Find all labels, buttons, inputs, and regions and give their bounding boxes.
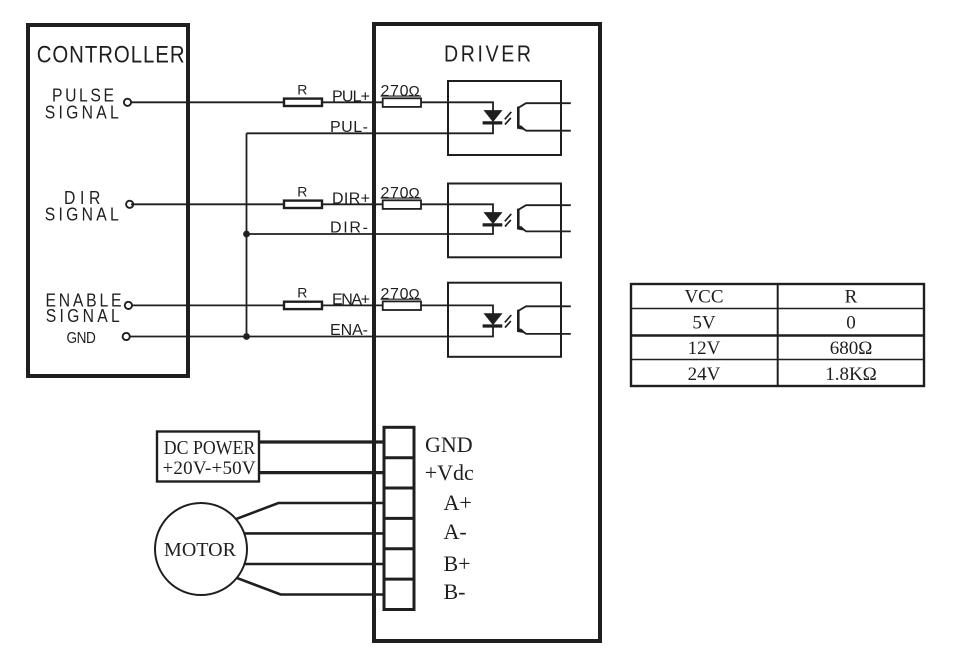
svg-text:VCC: VCC <box>684 287 723 308</box>
wire R6 to optocoupler U3 <box>421 304 448 306</box>
svg-text:R: R <box>297 82 307 98</box>
terminal circle PULSE <box>124 99 131 106</box>
terminal block divider 3 <box>384 517 414 520</box>
optocoupler U3 collector wire <box>518 306 571 311</box>
svg-text:1.8KΩ: 1.8KΩ <box>825 364 877 385</box>
table row line 3 <box>631 359 924 361</box>
wire motor to A+ terminal <box>235 503 386 519</box>
svg-text:DC POWER: DC POWER <box>164 437 256 459</box>
svg-text:GND: GND <box>425 432 473 457</box>
resistor R2 <box>284 201 322 208</box>
wire R4 to optocoupler U1 <box>421 101 448 103</box>
terminal circle GND <box>123 333 130 340</box>
optocoupler U2 LED triangle <box>485 213 502 224</box>
optocoupler U2 box <box>448 184 561 258</box>
value label 270 ohm for R6 <box>381 286 422 303</box>
optocoupler U1 LED cathode bar <box>483 121 503 124</box>
junction dot ENA-/rail <box>243 333 250 340</box>
svg-text:ENA+: ENA+ <box>332 292 370 309</box>
label DIR SIGNAL <box>45 187 119 225</box>
svg-text:0: 0 <box>846 313 856 334</box>
optocoupler U2 phototransistor base bar <box>517 209 520 230</box>
wire DIR+ from terminal to resistor R2 <box>131 203 283 205</box>
wire motor to B- terminal <box>237 578 387 595</box>
label PULSE SIGNAL <box>45 84 119 122</box>
resistor R1 <box>284 99 322 106</box>
wire ENA+ from terminal to resistor R3 <box>131 304 283 306</box>
optocoupler U3 LED triangle <box>485 314 502 325</box>
svg-text:CONTROLLER: CONTROLLER <box>37 41 185 68</box>
svg-text:B-: B- <box>444 579 466 604</box>
svg-text:+20V-+50V: +20V-+50V <box>163 458 256 479</box>
vertical rail wire (common return) <box>246 133 248 336</box>
terminal block divider 4 <box>384 547 414 550</box>
terminal circle ENABLE <box>125 302 132 309</box>
svg-text:5V: 5V <box>692 313 716 334</box>
controller box <box>28 25 188 376</box>
optocoupler U1 emitter wire with arrow <box>518 125 571 131</box>
optocoupler U3 emitter wire with arrow <box>518 328 571 334</box>
driver title label <box>444 41 531 67</box>
resistor R5 (270 ohm) <box>383 200 421 209</box>
wire DC POWER to GND terminal <box>259 440 386 443</box>
optocoupler U1 LED triangle <box>485 111 502 122</box>
optocoupler U1 light coupling arrows <box>505 112 512 125</box>
svg-text:24V: 24V <box>688 364 721 385</box>
optocoupler U1 LED anode wire <box>448 102 493 110</box>
table row line 2 <box>631 334 924 337</box>
svg-text:R: R <box>297 184 307 200</box>
table row line 1 <box>631 308 924 310</box>
wire R3 to resistor R6 <box>322 304 383 306</box>
terminal block divider 1 <box>384 456 414 459</box>
resistor R4 (270 ohm) <box>383 98 421 107</box>
optocoupler U2 emitter wire with arrow <box>518 226 571 232</box>
wire PUL- from optocoupler U1 to left rail <box>247 132 449 134</box>
svg-text:PUL+: PUL+ <box>332 89 370 106</box>
terminal block divider 5 <box>384 578 414 581</box>
label GND (controller) <box>67 330 96 347</box>
optocoupler U2 LED cathode wire <box>448 225 493 234</box>
optocoupler U3 LED cathode bar <box>483 324 503 327</box>
svg-text:DRIVER: DRIVER <box>444 41 531 67</box>
wire DC POWER to +Vdc terminal <box>259 471 386 474</box>
resistor R3 <box>284 302 322 309</box>
wire motor to A- terminal <box>244 532 386 535</box>
junction dot DIR-/rail <box>243 231 250 238</box>
table VCC/R outer border <box>631 284 924 386</box>
svg-text:DIR+: DIR+ <box>332 191 370 208</box>
motor M1 circle <box>155 503 247 595</box>
wire R5 to optocoupler U2 <box>421 203 448 205</box>
wire ENA-/GND from optocoupler U3 to GND terminal <box>130 336 448 338</box>
svg-text:R: R <box>297 285 307 301</box>
label ENABLE SIGNAL <box>46 289 122 326</box>
optocoupler U3 LED anode wire <box>448 305 493 313</box>
svg-text:GND: GND <box>67 330 96 347</box>
svg-text:B+: B+ <box>444 551 471 576</box>
value label 270 ohm for R4 <box>381 83 422 100</box>
svg-text:A+: A+ <box>444 490 472 515</box>
DC POWER box <box>157 432 259 482</box>
optocoupler U3 box <box>448 283 561 357</box>
value label 270 ohm for R5 <box>381 185 422 202</box>
controller title label <box>37 41 185 68</box>
driver box <box>374 24 600 641</box>
optocoupler U1 LED cathode wire <box>448 123 493 133</box>
wire motor to B+ terminal <box>245 563 386 566</box>
wire R1 to resistor R4 <box>322 101 383 103</box>
optocoupler U3 light coupling arrows <box>505 315 512 328</box>
optocoupler U2 light coupling arrows <box>505 214 512 227</box>
optocoupler U2 collector wire <box>518 205 571 210</box>
svg-text:R: R <box>845 287 858 308</box>
optocoupler U2 LED cathode bar <box>483 223 503 226</box>
optocoupler U1 phototransistor base bar <box>517 107 520 129</box>
wire DIR- from optocoupler U2 to rail <box>247 233 449 235</box>
svg-text:680Ω: 680Ω <box>830 338 873 359</box>
svg-text:MOTOR: MOTOR <box>164 539 237 561</box>
svg-text:+Vdc: +Vdc <box>425 460 474 485</box>
resistor R6 (270 ohm) <box>383 301 421 310</box>
svg-text:12V: 12V <box>688 338 721 359</box>
optocoupler U1 box <box>448 81 561 155</box>
wire PUL+ from terminal to resistor R1 <box>131 101 283 103</box>
optocoupler U3 LED cathode wire <box>448 326 493 337</box>
terminal circle DIR <box>126 201 133 208</box>
terminal block outline <box>384 427 414 609</box>
optocoupler U3 phototransistor base bar <box>517 310 520 332</box>
label DC POWER <box>164 437 256 459</box>
optocoupler U1 collector wire <box>518 103 571 108</box>
svg-text:A-: A- <box>444 519 467 544</box>
wire R2 to resistor R5 <box>322 203 383 205</box>
table column divider <box>777 284 779 386</box>
optocoupler U2 LED anode wire <box>448 204 493 212</box>
terminal block divider 2 <box>384 487 414 490</box>
